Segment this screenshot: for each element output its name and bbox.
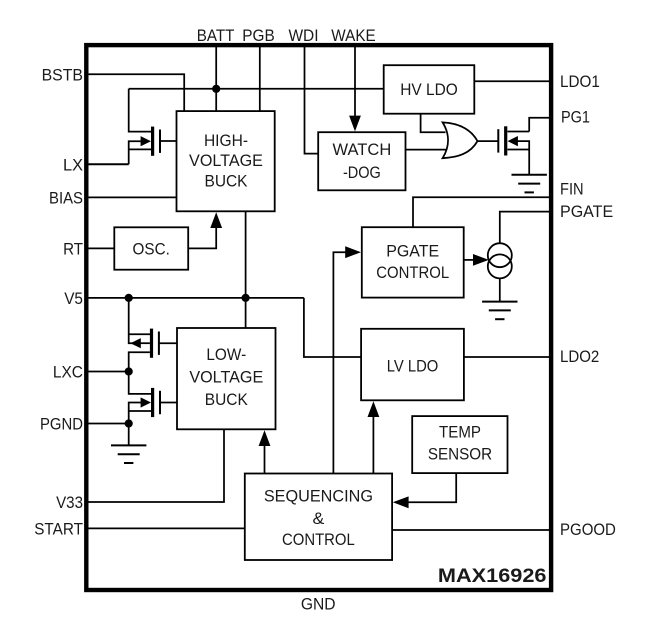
svg-text:-DOG: -DOG: [343, 164, 381, 182]
wire HV buck to V5 rail: [245, 211, 247, 298]
svg-text:HIGH-: HIGH-: [204, 132, 248, 150]
wire HV LDO to OR gate: [421, 114, 446, 133]
svg-text:RT: RT: [63, 241, 83, 259]
wire BATT rail to Q1 drain: [129, 89, 151, 132]
junction dot PGND: [125, 419, 133, 427]
pin PGB wire: [259, 45, 261, 111]
svg-text:VOLTAGE: VOLTAGE: [189, 152, 263, 170]
wire Q3 body strap: [129, 410, 151, 412]
wire OR gate output: [478, 140, 498, 142]
wire Q4 body strap: [508, 149, 530, 151]
pin BATT wire: [215, 45, 217, 111]
wire sequencing to LV buck: [264, 443, 266, 474]
wire PGND to ground: [128, 424, 130, 446]
svg-text:LDO1: LDO1: [560, 73, 600, 91]
wire Q1 body strap: [129, 148, 151, 150]
arrow into PGATE CONTROL: [345, 246, 361, 258]
junction dot LXC: [125, 367, 133, 375]
wire Q3 source to PGND: [129, 403, 141, 424]
pin PGND wire: [86, 423, 128, 425]
svg-text:FIN: FIN: [560, 181, 584, 199]
pin WDI wire: [305, 45, 319, 154]
svg-text:BIAS: BIAS: [49, 190, 83, 208]
svg-text:WDI: WDI: [288, 27, 318, 45]
wire sequencing to LV LDO: [372, 414, 374, 474]
wire Q1 gate to HV buck: [160, 140, 177, 142]
pin WAKE wire: [354, 45, 356, 118]
svg-text:CONTROL: CONTROL: [282, 531, 355, 549]
wire V5 to LV LDO: [304, 298, 361, 357]
transistor Q3: [151, 388, 154, 417]
wire Q2 drain strap: [129, 333, 150, 335]
block SEQUENCING & CONTROL: [245, 474, 392, 561]
transistor Q2: [150, 329, 153, 358]
wire Q4 drain to PG1: [508, 131, 530, 133]
svg-text:LXC: LXC: [53, 364, 83, 382]
svg-text:START: START: [34, 520, 83, 538]
svg-text:PGOOD: PGOOD: [560, 521, 616, 539]
svg-text:SEQUENCING: SEQUENCING: [264, 487, 373, 505]
block TEMP SENSOR: [412, 416, 507, 473]
svg-text:LX: LX: [63, 156, 83, 174]
IC outline border: [86, 45, 551, 590]
svg-text:PGATE: PGATE: [560, 203, 613, 221]
wire TEMP SENSOR to sequencing: [408, 473, 457, 502]
block WATCH-DOG: [318, 132, 405, 190]
arrow into sequencing: [393, 496, 409, 508]
svg-text:SENSOR: SENSOR: [428, 446, 492, 464]
pin LDO1 wire: [474, 80, 551, 82]
pin PGATE wire: [500, 212, 551, 244]
block HIGH-VOLTAGE BUCK: [177, 111, 275, 211]
pin BIAS wire: [86, 196, 176, 198]
wire Q2 arrow tail to bar: [140, 342, 150, 344]
wire Q4 source to ground: [517, 141, 529, 175]
OR gate U1: [443, 122, 478, 158]
wire V5 to Q2: [129, 298, 133, 343]
pin BSTB wire: [86, 74, 184, 111]
junction dot V5 at HV buck: [242, 294, 250, 302]
Q4 source arrow: [508, 136, 518, 146]
svg-text:BATT: BATT: [197, 27, 235, 45]
pin LX wire: [86, 163, 128, 165]
Q1 source arrow: [141, 136, 151, 146]
wire V5 to LV buck: [245, 298, 247, 328]
pin FIN wire: [413, 197, 551, 227]
pin RT wire: [86, 247, 114, 249]
ground at PGND: [111, 444, 146, 446]
pin LXC wire: [86, 371, 128, 373]
svg-text:TEMP: TEMP: [439, 424, 481, 442]
arrow OSC into HV buck: [210, 212, 222, 228]
wire WATCH-DOG to OR gate: [406, 149, 447, 151]
junction dot V5 at Q2: [125, 294, 133, 302]
block LV LDO: [361, 329, 464, 401]
wire Q1 source to LX: [129, 141, 141, 164]
wire Q2 body to LXC: [129, 352, 150, 371]
transistor Q4: [504, 126, 507, 155]
junction dot BATT rail: [212, 85, 220, 93]
wire current source to ground: [499, 278, 501, 301]
current source I1: [488, 243, 512, 267]
arrow into LV buck: [259, 430, 271, 446]
svg-text:LV LDO: LV LDO: [387, 358, 439, 376]
svg-text:OSC.: OSC.: [133, 240, 170, 258]
svg-text:VOLTAGE: VOLTAGE: [189, 368, 263, 386]
wire PGATE CONTROL to current source: [464, 259, 474, 261]
svg-text:MAX16926: MAX16926: [438, 565, 547, 587]
wire sequencing to PGATE CONTROL: [333, 252, 347, 473]
pin V5 wire: [86, 297, 304, 299]
block HV LDO: [384, 65, 475, 114]
wire OSC to HV buck: [188, 226, 216, 248]
svg-text:WAKE: WAKE: [331, 27, 375, 45]
svg-text:GND: GND: [301, 596, 336, 614]
arrow WAKE into WATCH-DOG: [349, 116, 361, 132]
pin V33 wire: [86, 429, 224, 502]
transistor Q1: [151, 127, 154, 156]
block LOW-VOLTAGE BUCK: [177, 328, 276, 429]
pin LDO2 wire: [464, 356, 551, 358]
svg-text:PGATE: PGATE: [386, 242, 439, 260]
svg-text:PGND: PGND: [40, 416, 83, 434]
svg-text:WATCH: WATCH: [333, 141, 392, 159]
arrow into current source: [473, 254, 489, 266]
ground at current source: [482, 301, 517, 303]
pin PGOOD wire: [392, 529, 551, 531]
svg-text:&: &: [313, 510, 325, 528]
Q2 source arrow: [130, 338, 140, 348]
arrow into LV LDO: [368, 401, 380, 417]
svg-text:LOW-: LOW-: [206, 346, 246, 364]
svg-text:BUCK: BUCK: [205, 172, 248, 190]
block PGATE CONTROL: [362, 227, 464, 297]
ground at Q4: [512, 174, 547, 176]
svg-text:V5: V5: [64, 290, 83, 308]
pin PG1 wire: [529, 118, 551, 132]
block OSC: [114, 227, 188, 269]
svg-text:V33: V33: [56, 494, 83, 512]
wire Q2 gate to LV buck: [159, 342, 177, 344]
svg-text:LDO2: LDO2: [560, 348, 599, 366]
svg-text:BSTB: BSTB: [42, 66, 83, 84]
wire LXC to Q3 drain: [129, 372, 151, 394]
svg-text:CONTROL: CONTROL: [376, 264, 449, 282]
wire Q3 gate to LV buck: [160, 402, 177, 404]
svg-text:BUCK: BUCK: [205, 391, 248, 409]
Q3 source arrow: [141, 397, 151, 407]
svg-text:HV LDO: HV LDO: [400, 81, 458, 99]
svg-text:PG1: PG1: [561, 108, 590, 126]
wire BATT horizontal rail: [129, 88, 384, 90]
svg-text:PGB: PGB: [242, 27, 275, 45]
pin START wire: [86, 527, 245, 529]
